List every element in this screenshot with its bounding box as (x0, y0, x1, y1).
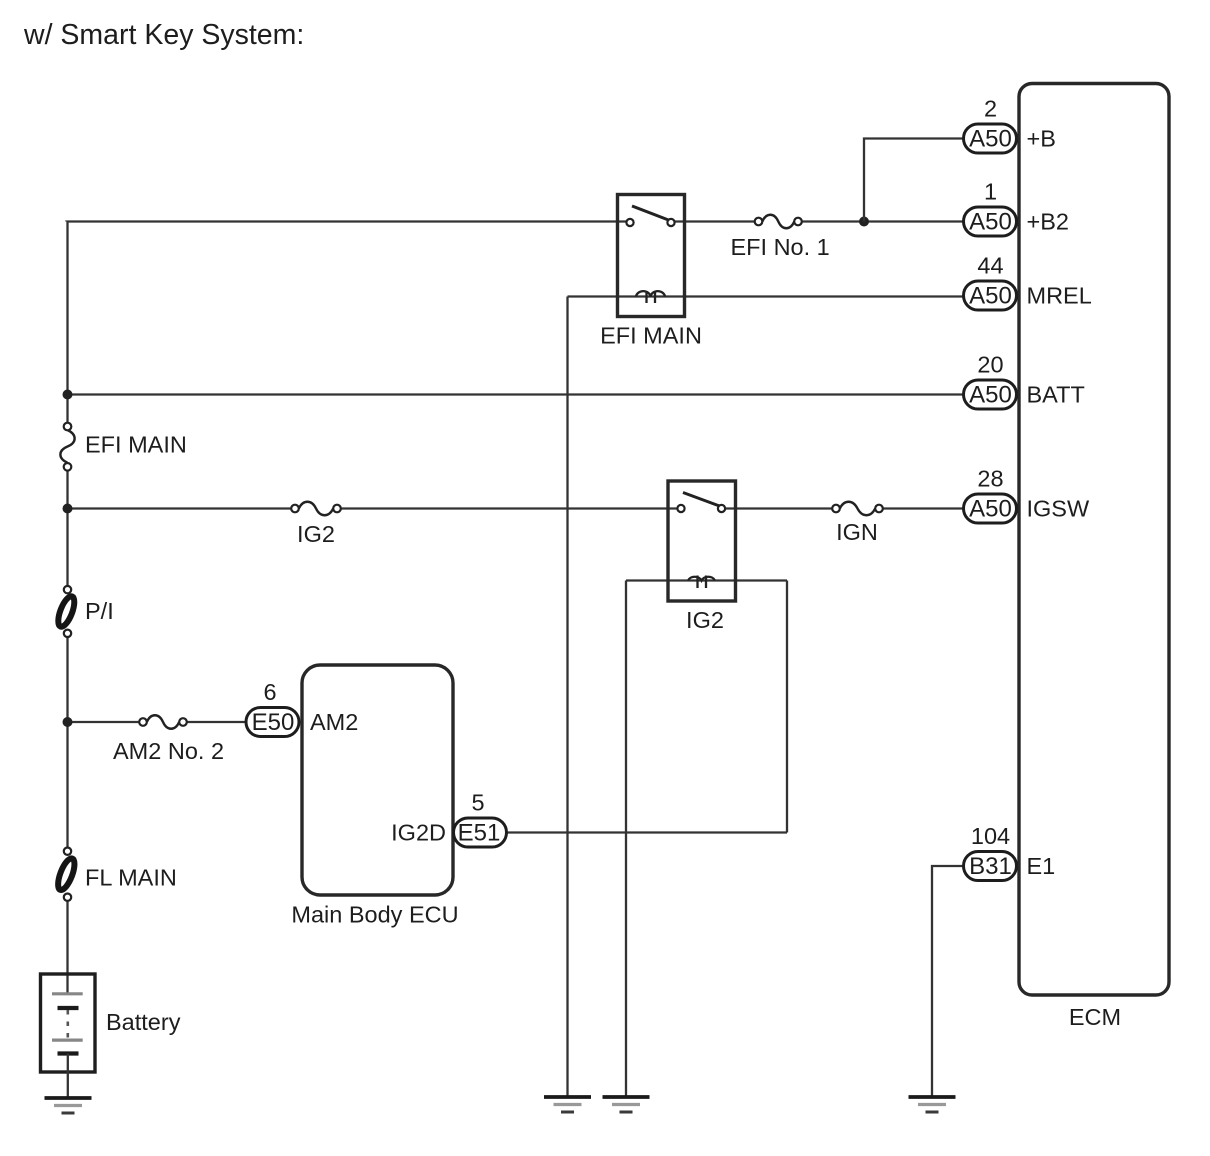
ground (IG2 relay coil) (603, 1097, 650, 1112)
wire: BATT horizontal (y=394.5) (68, 393, 964, 395)
wire: relay switch to EFI No.1 fuse (671, 220, 759, 222)
relay IG2 box (668, 481, 736, 601)
node: junction at +B branch (859, 217, 869, 227)
Main Body ECU box (302, 665, 453, 895)
wire: IGN fuse to IGSW pin (879, 507, 963, 509)
svg-text:EFI No. 1: EFI No. 1 (731, 234, 830, 260)
connector A50 pin 2 (+B) (964, 124, 1017, 153)
svg-text:A50: A50 (969, 209, 1012, 236)
svg-text:A50: A50 (969, 126, 1012, 153)
svg-text:E50: E50 (252, 709, 295, 736)
connector A50 pin 1 (+B2) (964, 207, 1017, 236)
wire: EFI MAIN relay coil left vertical down to ground (566, 297, 568, 1098)
svg-text:A50: A50 (969, 496, 1012, 523)
node: junction on left bus at AM2 (63, 717, 73, 727)
ground (E1) (909, 1097, 956, 1112)
wire: branch up to +B pin (864, 139, 963, 222)
wire: IG2 relay switch to IGN fuse (722, 507, 837, 509)
wire: left bus vertical top segment (x=67.5) (66, 221, 68, 427)
svg-text:1: 1 (984, 179, 997, 205)
node: junction on left bus at IGSW (63, 504, 73, 514)
wire: IGSW run: left bus to IG2 fuse (68, 507, 296, 509)
svg-text:A50: A50 (969, 382, 1012, 409)
fuse EFI No.1 (755, 215, 802, 229)
connector A50 pin 28 (IGSW) (964, 494, 1017, 523)
svg-text:5: 5 (471, 790, 484, 816)
svg-text:+B: +B (1027, 126, 1056, 152)
svg-text:MREL: MREL (1027, 283, 1092, 309)
relay EFI MAIN box (618, 195, 685, 317)
connector A50 pin 44 (MREL) (964, 281, 1017, 310)
svg-text:104: 104 (971, 823, 1010, 849)
svg-text:ECM: ECM (1069, 1004, 1121, 1030)
svg-text:P/I: P/I (85, 598, 114, 624)
relay IG2 switch blade (683, 493, 720, 507)
svg-text:FL MAIN: FL MAIN (85, 865, 177, 891)
fuse AM2 No.2 (139, 715, 187, 729)
wire: AM2 No.2 fuse to E50 (183, 721, 245, 723)
svg-text:IG2: IG2 (297, 521, 335, 547)
connector B31 pin 104 (E1) (964, 852, 1017, 881)
wire: EFI No.1 fuse to +B2 pin (798, 220, 963, 222)
svg-text:E1: E1 (1027, 853, 1056, 879)
relay EFI MAIN switch terminal left (626, 219, 633, 226)
connector A50 pin 20 (BATT) (964, 380, 1017, 409)
svg-text:IGSW: IGSW (1027, 496, 1090, 522)
relay EFI MAIN switch blade (632, 206, 669, 220)
svg-text:IG2: IG2 (686, 607, 724, 633)
relay IG2 coil (688, 576, 715, 589)
wire: IG2D from E51 to IG2 relay coil (507, 831, 787, 833)
svg-text:AM2 No. 2: AM2 No. 2 (113, 738, 224, 764)
svg-text:EFI MAIN: EFI MAIN (85, 432, 187, 458)
ECM box U1 (1019, 84, 1169, 996)
ground (EFI MAIN relay coil) (544, 1097, 591, 1112)
connector E50 pin 6 (246, 708, 299, 737)
relay IG2 switch terminal right (718, 505, 725, 512)
relay IG2 switch terminal left (677, 505, 684, 512)
svg-text:20: 20 (977, 352, 1003, 378)
wire: AM2 from left bus to AM2 No.2 fuse (68, 721, 144, 723)
svg-text:w/ Smart Key System:: w/ Smart Key System: (23, 19, 304, 51)
battery (41, 974, 96, 1099)
svg-text:IG2D: IG2D (391, 820, 446, 846)
svg-text:6: 6 (263, 679, 276, 705)
svg-text:IGN: IGN (836, 519, 878, 545)
wire: top horizontal +B2 feed from left bus to EFI MAIN relay switch (68, 220, 631, 222)
fuse IG2 (291, 502, 341, 516)
svg-text:E51: E51 (458, 820, 501, 847)
wire: left bus from FL MAIN link to battery plate (66, 897, 68, 993)
svg-text:+B2: +B2 (1027, 209, 1069, 235)
svg-text:EFI MAIN: EFI MAIN (600, 323, 702, 349)
svg-text:Battery: Battery (106, 1009, 181, 1035)
svg-text:Main Body ECU: Main Body ECU (291, 902, 458, 928)
wire: E1 pin to ground vertical (932, 866, 963, 1097)
svg-text:BATT: BATT (1027, 382, 1085, 408)
relay EFI MAIN coil (636, 291, 665, 303)
wire: IG2 coil right vertical down to IG2D wire (786, 581, 788, 833)
wire: MREL from relay coil to pin (y=296.5) (568, 295, 964, 297)
relay EFI MAIN switch terminal right (667, 219, 674, 226)
fusible link FL MAIN (55, 848, 78, 901)
ground (battery) (45, 1098, 92, 1113)
fusible link P/I (55, 586, 78, 637)
wire: left bus between P/I link and FL MAIN link (66, 633, 68, 851)
node: junction on left bus at BATT (63, 390, 73, 400)
wire: IG2 relay coil run (y=580.5) (626, 579, 787, 581)
svg-text:A50: A50 (969, 283, 1012, 310)
wire: IG2 fuse to IG2 relay switch (337, 507, 681, 509)
svg-text:2: 2 (984, 96, 997, 122)
fuse IGN (832, 502, 883, 516)
svg-text:28: 28 (977, 466, 1003, 492)
svg-text:44: 44 (977, 253, 1003, 279)
wire: left bus between EFI MAIN link and P/I link (66, 467, 68, 590)
svg-text:AM2: AM2 (310, 709, 358, 735)
wire: IG2 coil left vertical down to ground (625, 581, 627, 1098)
fusible link EFI MAIN (60, 423, 74, 471)
connector E51 pin 5 (454, 818, 507, 847)
svg-text:B31: B31 (969, 853, 1012, 880)
